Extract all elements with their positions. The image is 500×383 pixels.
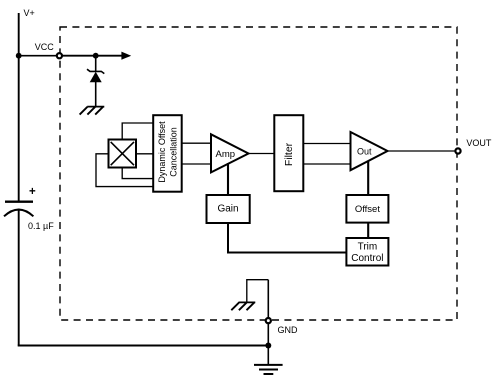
node GND pin (open circle) xyxy=(266,318,271,323)
wire GND internal vertical xyxy=(267,280,269,318)
junction at zener tap xyxy=(93,53,99,59)
wire Gain to Trim Control xyxy=(228,223,346,253)
node VOUT pin (open circle) xyxy=(455,148,460,153)
svg-text:Control: Control xyxy=(351,253,383,264)
wire Offset to Trim Control xyxy=(367,223,369,238)
svg-text:VCC: VCC xyxy=(35,42,55,52)
svg-text:Gain: Gain xyxy=(217,203,238,214)
wire hall top terminal to DOC xyxy=(122,123,153,140)
svg-text:0.1 µF: 0.1 µF xyxy=(28,221,54,231)
Hall element X1 (square with X) xyxy=(109,140,137,168)
svg-text:Offset: Offset xyxy=(355,204,381,215)
block U3 Gain xyxy=(207,195,250,223)
wire GND pin to ground rail xyxy=(267,324,269,364)
chassis ground inside package xyxy=(231,302,255,310)
op-amp U5 Out xyxy=(351,132,388,170)
wire GND internal top to chassis leg xyxy=(247,280,268,303)
chassis ground under zener xyxy=(80,107,105,115)
wire Filter to Out (lower) xyxy=(303,163,350,165)
wire hall right terminal to DOC xyxy=(136,153,153,155)
junction on V+ rail xyxy=(16,53,22,59)
wire Out to Offset xyxy=(367,161,369,195)
svg-text:Amp: Amp xyxy=(216,149,236,160)
wire DOC to Amp (upper) xyxy=(182,142,211,144)
wire Out to VOUT pin xyxy=(388,150,455,152)
wire Amp output to Filter xyxy=(249,153,275,155)
wire VCC internal with arrowhead xyxy=(63,55,122,57)
wire V+ rail to VCC pin xyxy=(19,55,57,57)
node VCC pin (open circle) xyxy=(57,53,62,58)
wire left rail below capacitor xyxy=(18,209,20,346)
op-amp U2 Amp xyxy=(211,134,249,172)
junction at ground rail xyxy=(265,343,271,349)
svg-text:Trim: Trim xyxy=(358,241,378,252)
svg-text:Dynamic Offset: Dynamic Offset xyxy=(157,121,167,183)
IC package boundary (dashed) xyxy=(60,27,457,320)
block U7 Trim Control xyxy=(346,238,388,266)
zener diode D1 xyxy=(87,56,104,106)
wire Filter to Out (upper) xyxy=(303,143,350,145)
wire bottom ground rail xyxy=(18,345,269,347)
wire V+ left rail (vertical) xyxy=(18,13,20,201)
block U6 Offset xyxy=(346,195,388,223)
wire hall bottom terminal to DOC xyxy=(122,168,153,179)
wire DOC to Amp (lower) xyxy=(182,163,211,165)
capacitor C1 0.1 uF xyxy=(4,186,54,231)
wire hall left terminal around to DOC xyxy=(96,154,153,187)
block U4 Filter xyxy=(274,115,303,191)
block U1 Dynamic Offset Cancellation xyxy=(153,115,182,192)
svg-text:Out: Out xyxy=(357,146,372,156)
svg-text:V+: V+ xyxy=(24,8,35,18)
svg-text:+: + xyxy=(29,186,36,198)
svg-text:VOUT: VOUT xyxy=(466,138,492,148)
svg-text:GND: GND xyxy=(278,325,299,335)
wire Amp to Gain xyxy=(227,163,229,195)
earth ground symbol xyxy=(254,365,283,374)
svg-text:Cancellation: Cancellation xyxy=(168,127,178,177)
svg-text:Filter: Filter xyxy=(283,142,295,166)
